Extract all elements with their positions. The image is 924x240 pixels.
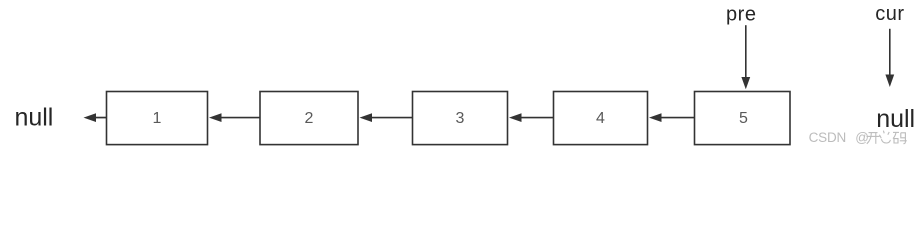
node box 1 [107,92,208,145]
svg-text:null: null [15,103,54,131]
arrow box5 to box4 [649,113,695,122]
node box 4 [554,92,648,145]
svg-text:5: 5 [739,110,748,127]
svg-text:cur: cur [875,3,904,25]
node box 5 [695,92,791,145]
arrow box1 to null [84,113,107,122]
svg-text:null: null [876,105,915,133]
arrow pre down to box5 [741,25,750,89]
svg-text:CSDN: CSDN [809,130,846,145]
arrow box4 to box3 [509,113,554,122]
arrow cur down to null [885,29,894,87]
svg-text:2: 2 [305,110,314,127]
node box 2 [260,92,358,145]
node box 3 [413,92,508,145]
arrow box3 to box2 [360,113,413,122]
watermark char xin [879,131,890,143]
watermark char ma [893,132,907,143]
svg-text:4: 4 [596,110,605,127]
svg-text:3: 3 [456,110,465,127]
svg-text:pre: pre [726,4,757,26]
watermark char kai [867,133,880,144]
svg-text:1: 1 [153,110,162,127]
arrow box2 to box1 [209,113,260,122]
